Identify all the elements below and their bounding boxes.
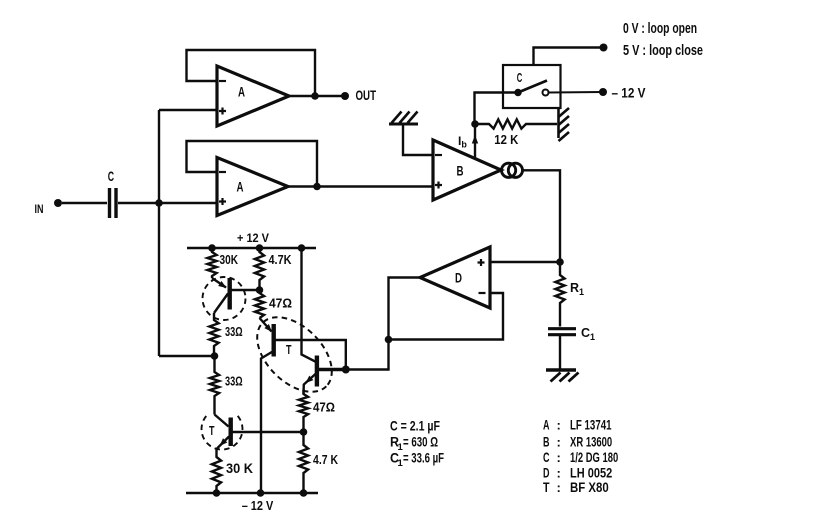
- wire A2 feedback loop: [187, 141, 318, 187]
- svg-text:A: A: [543, 416, 550, 432]
- svg-text:33Ω: 33Ω: [225, 375, 243, 389]
- svg-text:= 630 Ω: = 630 Ω: [403, 435, 438, 450]
- resistor 47ohm upper: [255, 290, 264, 318]
- wire T3 collector lead: [215, 415, 229, 427]
- svg-text:4.7K: 4.7K: [269, 253, 292, 267]
- wire -12V rail: [186, 492, 318, 494]
- svg-text:5 V : loop close: 5 V : loop close: [623, 43, 703, 59]
- ground right of 12K: [557, 108, 560, 138]
- svg-text::: :: [557, 480, 561, 495]
- switch open contact: [543, 90, 549, 96]
- op-amp D: [420, 247, 490, 308]
- node rail junction T2 collector: [257, 489, 265, 497]
- switch lever: [518, 81, 547, 93]
- node 33ohm junction: [211, 352, 219, 360]
- wire T1 base: [232, 289, 260, 291]
- svg-text:4.7 K: 4.7 K: [313, 453, 338, 467]
- resistor R1: [555, 262, 564, 327]
- svg-text::: :: [557, 465, 561, 480]
- resistor 12K: [475, 119, 557, 128]
- node Ib junction: [471, 120, 479, 128]
- wire T3 emitter: [217, 437, 229, 449]
- svg-text:OUT: OUT: [356, 88, 377, 103]
- wire B output to R1 node: [523, 170, 561, 262]
- svg-text:– 12 V: – 12 V: [242, 498, 274, 512]
- OTA output current-source symbol: [502, 163, 516, 177]
- svg-text:0 V : loop open: 0 V : loop open: [623, 21, 697, 37]
- node rail junction 30K: [208, 244, 216, 252]
- svg-text::: :: [557, 450, 561, 465]
- node A1 output junction: [311, 92, 319, 100]
- svg-text:XR 13600: XR 13600: [570, 433, 612, 449]
- node rail junction 4.7K bottom: [300, 489, 308, 497]
- resistor 30K upper: [207, 248, 216, 278]
- node rail junction 4.7K: [256, 244, 264, 252]
- dashed ellipse around T2 T4: [243, 303, 346, 406]
- svg-text:A: A: [237, 180, 244, 195]
- wire input node vertical bus: [158, 110, 160, 356]
- resistor 4.7K upper: [255, 248, 264, 290]
- wire to A1 + input: [159, 109, 217, 111]
- wire T2 base link: [276, 340, 346, 370]
- resistor 30K lower: [212, 449, 221, 493]
- svg-text:1/2 DG 180: 1/2 DG 180: [570, 449, 618, 465]
- svg-text::: :: [557, 417, 561, 432]
- wire Ib bias: [474, 124, 476, 159]
- node switch contact: [514, 89, 521, 96]
- transistor T1: [227, 278, 231, 310]
- svg-text:D: D: [543, 464, 550, 480]
- node R1 top: [556, 258, 564, 266]
- dashed arc T3: [201, 416, 242, 450]
- svg-text:A: A: [238, 85, 245, 100]
- op-amp B: [433, 140, 501, 200]
- wire A1 output: [289, 95, 345, 97]
- svg-text:LH 0052: LH 0052: [570, 464, 612, 480]
- wire +12V rail: [187, 247, 316, 249]
- node 47ohm/4.7K junction: [300, 428, 308, 436]
- wire C1 to ground: [559, 336, 561, 370]
- wire C to node A2+: [118, 202, 217, 204]
- svg-text:IN: IN: [35, 202, 44, 216]
- svg-text:BF X80: BF X80: [570, 479, 609, 495]
- transistor T3: [228, 418, 232, 447]
- svg-text:47Ω: 47Ω: [313, 401, 335, 415]
- wire R1 node to D+: [490, 261, 560, 263]
- wire T4 collector from rail: [302, 248, 317, 362]
- wire T2 collector to rail: [261, 351, 274, 493]
- node input junction: [155, 199, 163, 207]
- wire T3 base: [233, 431, 304, 433]
- transistor T4: [315, 356, 319, 387]
- svg-text:T: T: [543, 479, 550, 495]
- svg-text:= 33.6 µF: = 33.6 µF: [403, 451, 444, 466]
- node D feedback junction: [385, 336, 393, 344]
- svg-text:33Ω: 33Ω: [225, 325, 243, 339]
- wire switch to -12V terminal: [549, 91, 603, 94]
- svg-text:30 K: 30 K: [226, 461, 253, 476]
- node 5V control terminal: [600, 44, 608, 52]
- resistor 47ohm lower: [299, 390, 308, 433]
- svg-text:LF 13741: LF 13741: [570, 416, 612, 432]
- wire T2 emitter: [260, 318, 272, 332]
- svg-text:B: B: [457, 163, 464, 178]
- resistor 33ohm upper: [209, 313, 218, 356]
- svg-text:T: T: [286, 343, 292, 357]
- wire switch to Ib node: [475, 93, 519, 125]
- node rail junction 30K bottom: [213, 489, 221, 497]
- svg-text:47Ω: 47Ω: [269, 297, 292, 311]
- node A2 output junction: [313, 183, 321, 191]
- capacitor C: [108, 188, 111, 218]
- node base junction: [342, 366, 350, 374]
- wire T4 base thick segment: [319, 368, 347, 372]
- ground below C1: [546, 368, 576, 371]
- op-amp A1: [217, 66, 289, 126]
- node -12V terminal: [599, 88, 607, 96]
- wire D output down: [346, 278, 420, 370]
- wire switch control: [534, 48, 604, 66]
- node IN terminal: [54, 199, 62, 207]
- wire B- to ground: [403, 124, 433, 155]
- svg-text:T: T: [209, 424, 215, 438]
- svg-text:12 K: 12 K: [494, 132, 519, 147]
- wire T1 collector: [214, 294, 228, 314]
- svg-text:C = 2.1 µF: C = 2.1 µF: [390, 419, 440, 434]
- svg-text:D: D: [455, 271, 462, 286]
- svg-text:C: C: [543, 449, 550, 465]
- capacitor C1: [548, 327, 576, 330]
- analog switch box C: [503, 65, 561, 108]
- svg-text:C: C: [108, 168, 114, 184]
- op-amp A2: [217, 158, 288, 216]
- svg-text:C: C: [517, 71, 523, 85]
- wire IN to C: [62, 202, 107, 204]
- transistor T2: [272, 324, 276, 357]
- wire T1 emitter lead: [212, 278, 226, 288]
- ground near B: [389, 123, 418, 126]
- svg-text:30K: 30K: [220, 253, 239, 267]
- resistor 4.7K lower: [299, 432, 308, 493]
- node 4.7K/47ohm junction: [256, 286, 264, 294]
- svg-text:– 12 V: – 12 V: [612, 86, 646, 101]
- node OUT terminal: [341, 92, 349, 100]
- resistor 33ohm lower: [210, 356, 219, 415]
- svg-text:+ 12 V: + 12 V: [237, 231, 269, 245]
- wire A1 feedback loop: [187, 50, 316, 96]
- wire T4 emitter: [304, 374, 317, 395]
- wire A2 output to B+: [288, 185, 433, 187]
- wire node to 33ohm junction: [159, 355, 215, 357]
- node rail junction T4 collector: [298, 244, 306, 252]
- wire D- feedback: [389, 293, 504, 340]
- svg-text::: :: [557, 434, 561, 449]
- dashed circle T1: [203, 277, 246, 320]
- svg-text:B: B: [543, 433, 550, 449]
